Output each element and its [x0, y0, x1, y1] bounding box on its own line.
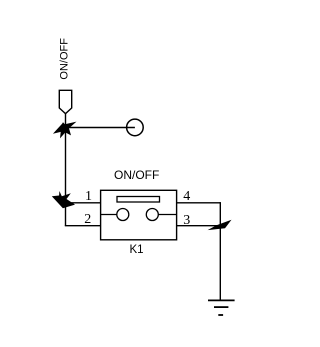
off-page connector (pentagon) — [59, 90, 71, 113]
contact wire left — [101, 214, 117, 216]
svg-text:ON/OFF: ON/OFF — [114, 168, 159, 182]
wire: pin 3 stub — [177, 225, 221, 227]
svg-text:2: 2 — [84, 212, 91, 227]
relay coil — [117, 197, 160, 203]
wire: right vertical to ground — [219, 202, 221, 300]
contact circle right — [146, 209, 158, 221]
flow arrow 3 at junction — [208, 220, 232, 230]
wire: pin 4 stub to corner — [177, 202, 221, 204]
svg-text:ON/OFF: ON/OFF — [58, 38, 70, 80]
contact wire right — [158, 214, 176, 216]
relay K1 body — [101, 190, 177, 240]
flow arrow 1 at junction — [53, 122, 77, 139]
wire: pin 2 stub — [65, 225, 101, 227]
circle terminal — [127, 119, 144, 136]
svg-text:4: 4 — [183, 189, 190, 204]
wire: main vertical from connector to pin2 corner — [65, 114, 67, 226]
svg-text:1: 1 — [85, 189, 92, 204]
flow arrow 2 at junction — [52, 191, 75, 208]
wire: pin 1 stub — [66, 202, 101, 204]
wire: horizontal to circle terminal — [66, 127, 135, 129]
ground — [208, 300, 235, 315]
contact circle left — [117, 209, 129, 221]
svg-text:K1: K1 — [130, 244, 144, 256]
